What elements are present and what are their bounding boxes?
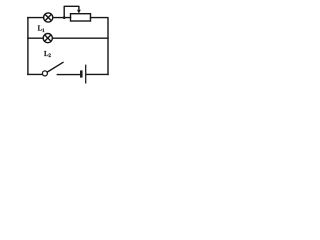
svg-text:L2: L2 — [44, 51, 52, 59]
wire switch to battery — [57, 74, 80, 76]
wire top-left segment — [28, 17, 44, 19]
switch S (pivot terminal) — [42, 71, 47, 76]
wire battery to bottom-right corner — [86, 73, 108, 75]
wire middle-left segment — [28, 37, 43, 39]
node junction dot on top wire — [63, 16, 66, 19]
resistor R (rheostat body) — [71, 14, 91, 21]
wire L1 to rheostat — [53, 17, 71, 19]
wire bottom-left to switch — [28, 73, 43, 75]
wire left rail — [27, 18, 29, 75]
wire L2 to right rail — [53, 37, 109, 39]
lamp L2 — [43, 34, 52, 43]
wire rheostat to top-right corner and right rail — [91, 18, 109, 75]
battery positive plate (long thin) — [85, 65, 87, 84]
battery negative plate (short thick) — [80, 70, 83, 77]
lamp L1 — [44, 13, 53, 22]
svg-text:L1: L1 — [38, 26, 46, 34]
wire rheostat slider branch — [64, 6, 79, 17]
switch lever — [47, 62, 63, 72]
slider arrowhead — [77, 10, 81, 14]
